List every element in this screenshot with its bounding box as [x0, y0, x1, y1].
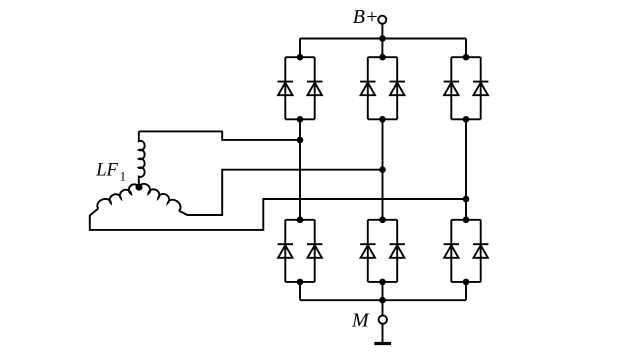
svg-text:LF: LF — [95, 160, 118, 180]
svg-text:M: M — [351, 310, 370, 332]
svg-text:1: 1 — [120, 170, 126, 184]
svg-text:B+: B+ — [353, 6, 379, 28]
